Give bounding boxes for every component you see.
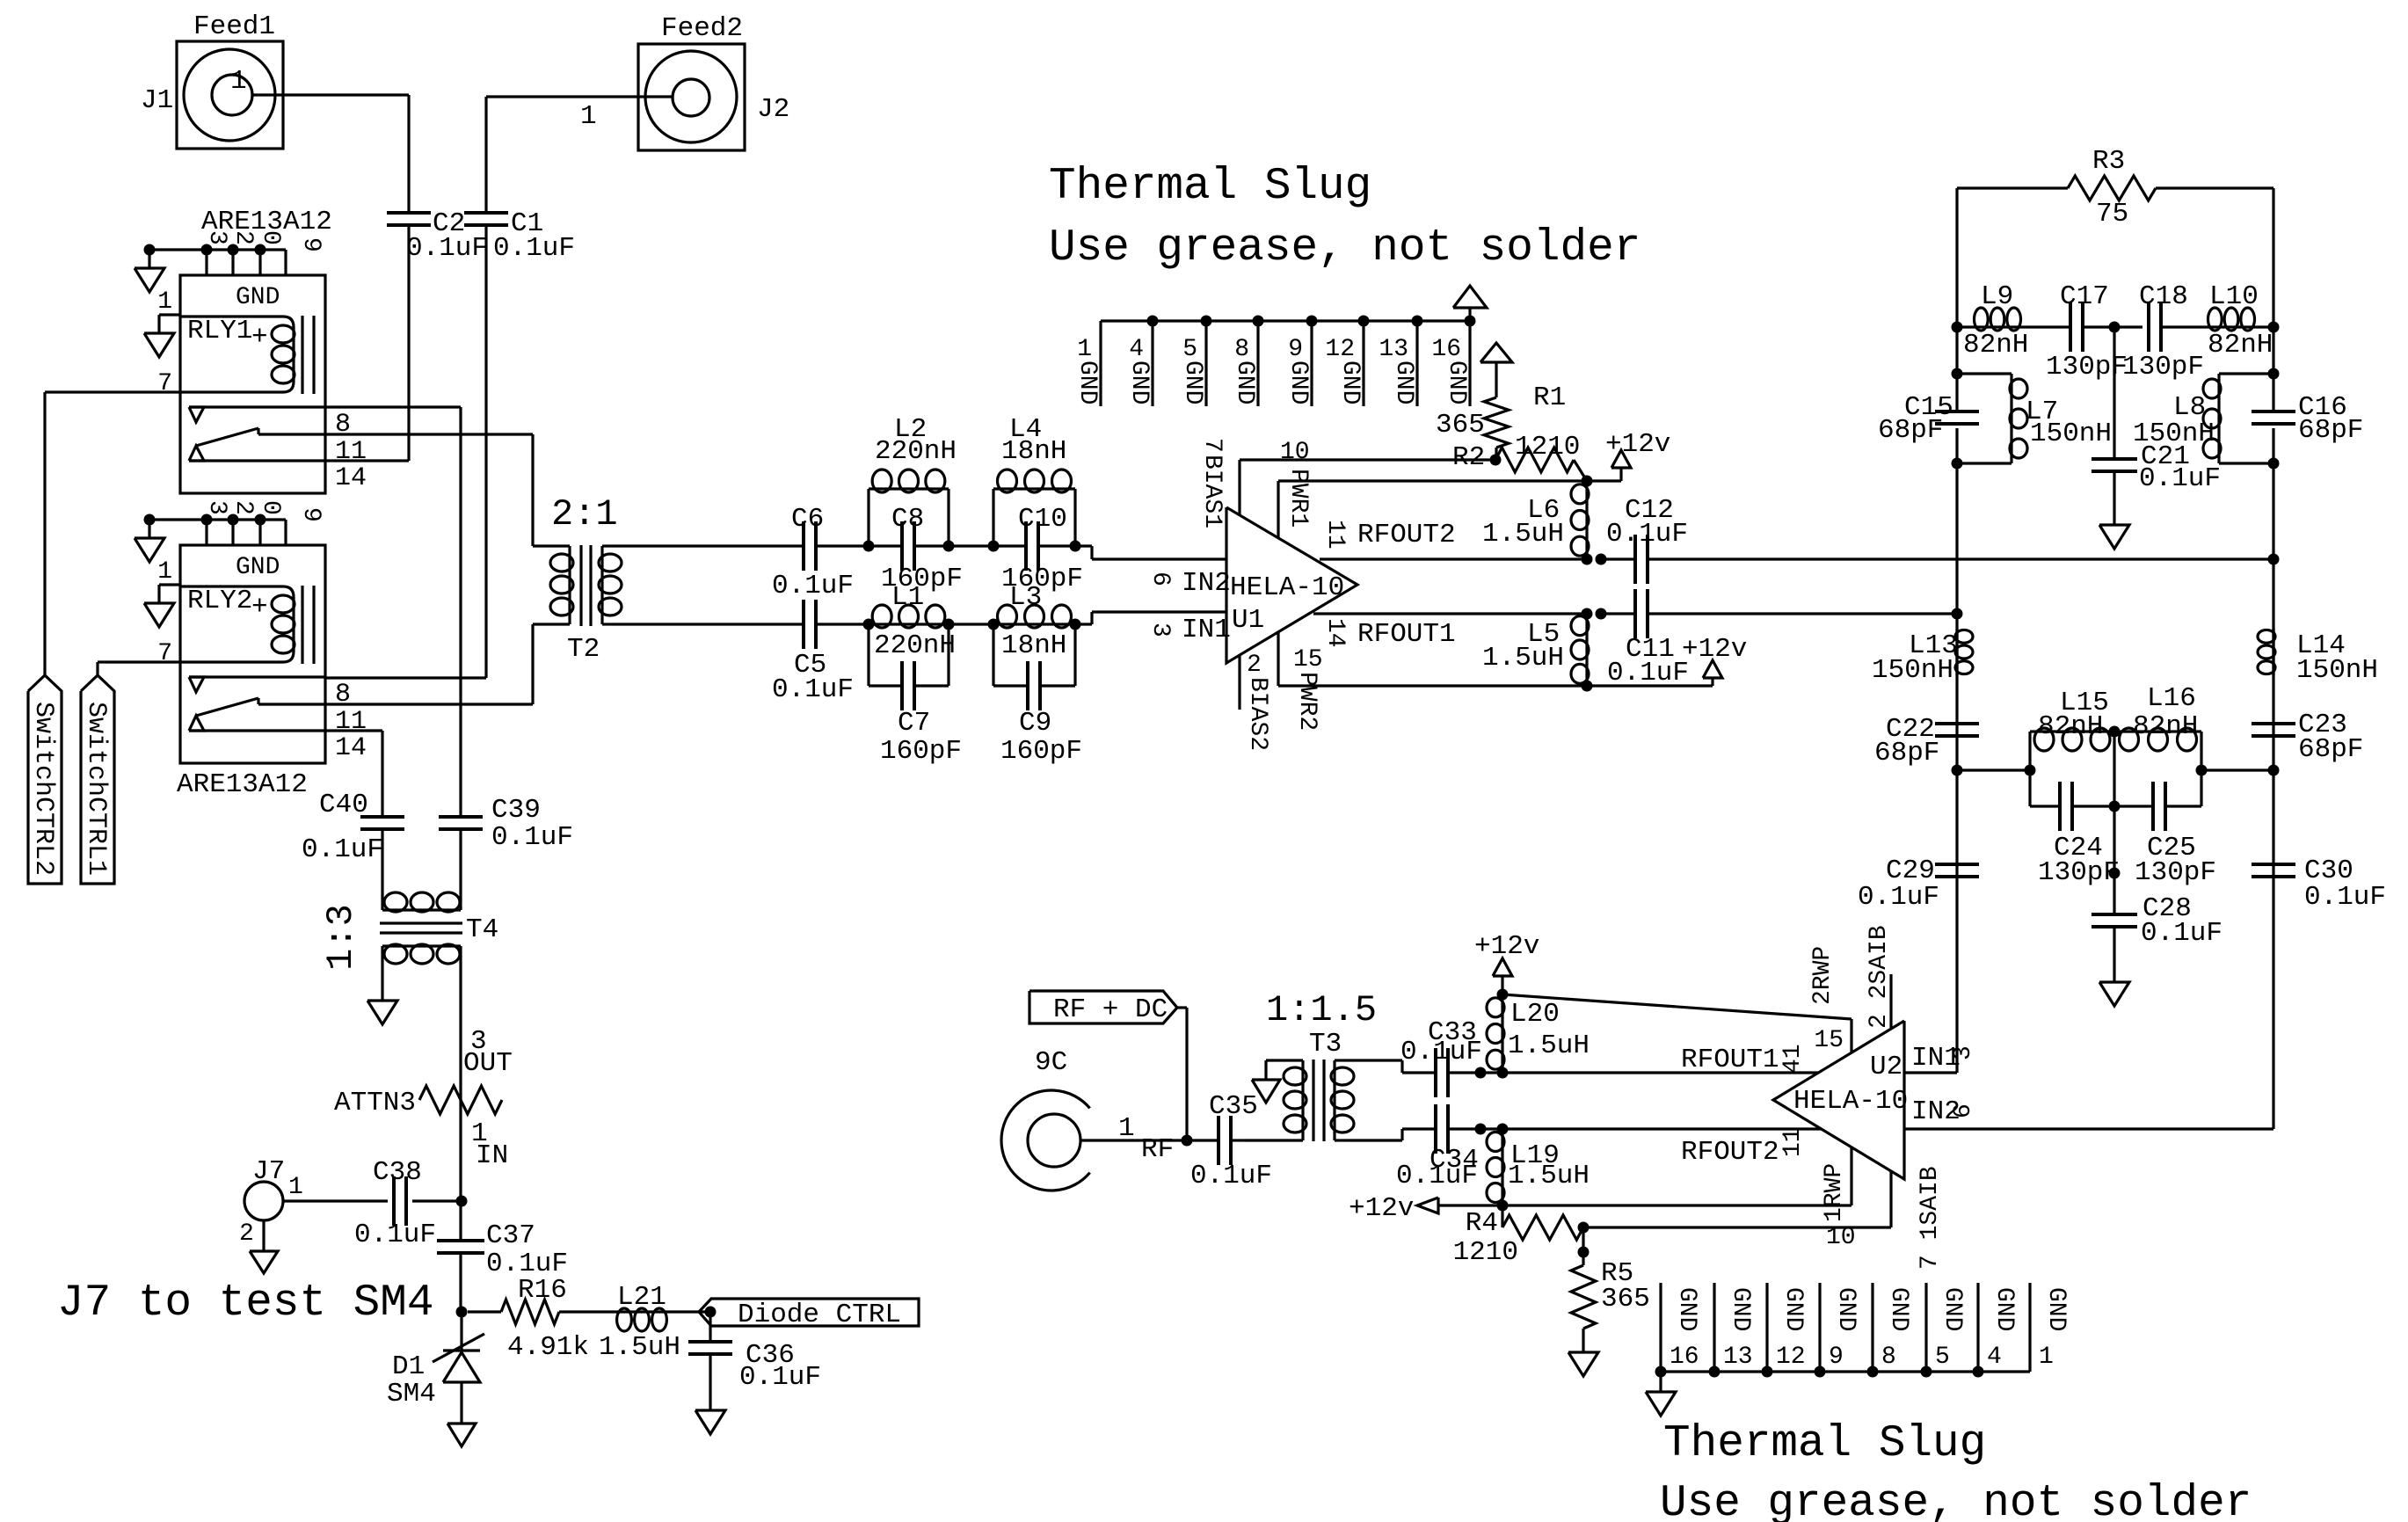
svg-text:PWR2: PWR2	[1293, 672, 1320, 731]
svg-text:150nH: 150nH	[1872, 655, 1953, 686]
svg-text:RF: RF	[1141, 1134, 1174, 1165]
svg-text:68pF: 68pF	[1874, 738, 1939, 768]
svg-text:0: 0	[257, 500, 284, 515]
svg-text:0.1uF: 0.1uF	[2139, 463, 2221, 494]
svg-text:RFOUT2: RFOUT2	[1681, 1137, 1779, 1168]
svg-text:+: +	[251, 322, 268, 353]
svg-text:J1: J1	[141, 85, 173, 116]
svg-text:9: 9	[297, 237, 324, 252]
svg-text:J7: J7	[252, 1156, 285, 1187]
svg-text:14: 14	[1321, 618, 1349, 648]
svg-text:7: 7	[1198, 438, 1226, 453]
svg-text:C8: C8	[891, 504, 924, 535]
svg-text:Diode CTRL: Diode CTRL	[738, 1300, 901, 1330]
svg-text:GND: GND	[1832, 1287, 1859, 1331]
svg-text:9: 9	[1288, 336, 1303, 363]
svg-text:0.1uF: 0.1uF	[1400, 1037, 1482, 1067]
svg-text:R16: R16	[518, 1275, 567, 1306]
svg-text:GND: GND	[1779, 1287, 1807, 1331]
svg-text:82nH: 82nH	[2133, 711, 2198, 742]
svg-text:RF + DC: RF + DC	[1053, 994, 1168, 1025]
svg-text:365: 365	[1601, 1284, 1650, 1314]
svg-text:GND: GND	[2042, 1287, 2070, 1331]
svg-text:J2: J2	[757, 94, 789, 125]
svg-text:C18: C18	[2139, 281, 2188, 312]
svg-text:3: 3	[1950, 1045, 1977, 1060]
svg-text:RFOUT1: RFOUT1	[1357, 619, 1456, 650]
svg-text:82nH: 82nH	[2208, 330, 2273, 360]
svg-text:1: 1	[580, 101, 597, 132]
svg-text:RLY1: RLY1	[187, 316, 252, 346]
svg-text:GND: GND	[1939, 1287, 1966, 1331]
svg-text:1: 1	[2039, 1344, 2054, 1371]
svg-text:GND: GND	[1443, 360, 1470, 404]
svg-text:HELA-10: HELA-10	[1230, 572, 1344, 603]
svg-text:18nH: 18nH	[1001, 436, 1066, 467]
svg-text:C10: C10	[1018, 504, 1067, 535]
svg-text:130pF: 130pF	[2122, 352, 2204, 382]
svg-text:GND: GND	[1727, 1287, 1754, 1331]
svg-text:RLY2: RLY2	[187, 586, 252, 616]
svg-text:5: 5	[1935, 1344, 1950, 1371]
svg-text:GND: GND	[1885, 1287, 1912, 1331]
svg-text:1: 1	[1118, 1113, 1135, 1144]
svg-text:150nH: 150nH	[2296, 655, 2378, 686]
svg-text:1RWP: 1RWP	[1821, 1163, 1848, 1222]
svg-text:C17: C17	[2060, 281, 2109, 312]
svg-text:ARE13A12: ARE13A12	[177, 769, 308, 800]
svg-text:U2: U2	[1870, 1052, 1902, 1082]
svg-text:L10: L10	[2209, 281, 2259, 312]
svg-text:160pF: 160pF	[880, 736, 962, 767]
svg-text:RFOUT2: RFOUT2	[1357, 520, 1456, 550]
svg-text:1: 1	[230, 66, 247, 97]
svg-text:C40: C40	[319, 790, 368, 820]
svg-text:1.5uH: 1.5uH	[1508, 1030, 1590, 1061]
svg-text:R4: R4	[1466, 1208, 1498, 1239]
svg-text:GND: GND	[236, 554, 280, 581]
svg-text:11: 11	[335, 707, 367, 737]
svg-text:C35: C35	[1209, 1091, 1258, 1122]
svg-text:1: 1	[1077, 336, 1092, 363]
svg-text:ARE13A12: ARE13A12	[201, 207, 332, 237]
svg-text:2:1: 2:1	[551, 493, 618, 535]
svg-text:0.1uF: 0.1uF	[1607, 658, 1689, 688]
svg-text:+12v: +12v	[1474, 931, 1539, 962]
svg-text:GND: GND	[1073, 360, 1101, 404]
svg-text:13: 13	[1379, 336, 1408, 363]
svg-text:0.1uF: 0.1uF	[2141, 918, 2222, 949]
svg-text:18nH: 18nH	[1001, 630, 1066, 661]
svg-text:Feed2: Feed2	[661, 13, 743, 44]
svg-text:12: 12	[1776, 1344, 1806, 1371]
svg-text:GND: GND	[1284, 360, 1312, 404]
svg-text:C6: C6	[791, 504, 824, 535]
svg-text:2: 2	[229, 500, 257, 515]
svg-text:1.5uH: 1.5uH	[1508, 1161, 1590, 1191]
svg-text:0.1uF: 0.1uF	[739, 1362, 821, 1393]
svg-text:L20: L20	[1510, 999, 1560, 1030]
svg-text:1.5uH: 1.5uH	[1482, 519, 1564, 550]
svg-text:68pF: 68pF	[1878, 415, 1943, 446]
svg-text:130pF: 130pF	[2038, 857, 2120, 888]
svg-text:D1: D1	[392, 1351, 425, 1382]
svg-text:0.1uF: 0.1uF	[1396, 1161, 1478, 1191]
svg-text:+12v: +12v	[1682, 634, 1747, 665]
svg-text:12: 12	[1325, 336, 1355, 363]
svg-text:T3: T3	[1309, 1029, 1342, 1060]
svg-text:GND: GND	[1673, 1287, 1700, 1331]
svg-text:10: 10	[1826, 1224, 1856, 1251]
svg-text:365: 365	[1436, 410, 1485, 441]
svg-text:1:1.5: 1:1.5	[1266, 989, 1377, 1031]
svg-text:Thermal Slug: Thermal Slug	[1663, 1419, 1986, 1469]
svg-text:15: 15	[1814, 1027, 1844, 1054]
svg-text:0.1uF: 0.1uF	[354, 1220, 436, 1250]
svg-text:GND: GND	[1125, 360, 1153, 404]
svg-text:C37: C37	[486, 1220, 535, 1251]
svg-text:16: 16	[1431, 336, 1461, 363]
svg-text:GND: GND	[1336, 360, 1364, 404]
svg-text:4: 4	[1129, 336, 1144, 363]
svg-text:SwitchCTRL2: SwitchCTRL2	[28, 702, 58, 876]
svg-text:1210: 1210	[1515, 432, 1580, 462]
svg-text:C38: C38	[373, 1157, 422, 1188]
svg-text:1:3: 1:3	[320, 904, 362, 971]
svg-text:0.1uF: 0.1uF	[772, 571, 854, 601]
svg-text:0.1uF: 0.1uF	[1190, 1161, 1272, 1191]
svg-text:R2: R2	[1452, 442, 1485, 473]
svg-text:6: 6	[1950, 1103, 1977, 1118]
svg-text:IN2: IN2	[1182, 568, 1231, 599]
svg-text:SM4: SM4	[387, 1379, 436, 1409]
svg-text:0.1uF: 0.1uF	[406, 233, 488, 264]
svg-text:PWR1: PWR1	[1284, 469, 1312, 528]
svg-text:160pF: 160pF	[1000, 736, 1082, 767]
svg-text:220nH: 220nH	[875, 436, 957, 467]
svg-text:1210: 1210	[1453, 1237, 1518, 1268]
svg-text:Feed1: Feed1	[193, 11, 275, 42]
svg-text:0.1uF: 0.1uF	[2304, 882, 2386, 913]
svg-text:C39: C39	[491, 795, 541, 826]
svg-text:1.5uH: 1.5uH	[599, 1332, 680, 1363]
svg-text:T2: T2	[567, 634, 600, 665]
svg-text:6: 6	[1146, 572, 1174, 586]
svg-text:+12v: +12v	[1605, 429, 1670, 460]
svg-text:41: 41	[1779, 1044, 1807, 1074]
svg-text:2 2SAIB: 2 2SAIB	[1866, 925, 1893, 1029]
svg-text:130pF: 130pF	[2135, 857, 2216, 888]
svg-text:15: 15	[1293, 646, 1323, 674]
svg-text:IN1: IN1	[1182, 615, 1231, 645]
svg-text:0.1uF: 0.1uF	[772, 674, 854, 705]
svg-text:L21: L21	[617, 1282, 666, 1313]
svg-text:L1: L1	[891, 582, 924, 613]
svg-text:R3: R3	[2092, 146, 2125, 177]
svg-text:8: 8	[1881, 1344, 1896, 1371]
svg-text:1.5uH: 1.5uH	[1482, 643, 1564, 674]
svg-text:SwitchCTRL1: SwitchCTRL1	[81, 702, 111, 876]
svg-text:2: 2	[239, 1220, 254, 1248]
svg-text:U1: U1	[1232, 605, 1264, 636]
svg-text:150nH: 150nH	[2030, 419, 2112, 449]
svg-text:10: 10	[1280, 439, 1310, 466]
svg-text:1: 1	[157, 288, 172, 316]
svg-text:4: 4	[1987, 1344, 2002, 1371]
svg-text:7: 7	[157, 640, 172, 667]
svg-text:2RWP: 2RWP	[1809, 946, 1837, 1005]
svg-text:0.1uF: 0.1uF	[1858, 882, 1939, 913]
svg-text:+: +	[251, 592, 268, 623]
svg-text:68pF: 68pF	[2298, 415, 2363, 446]
svg-text:0.1uF: 0.1uF	[1606, 519, 1688, 550]
svg-text:14: 14	[335, 463, 367, 493]
svg-text:7 1SAIB: 7 1SAIB	[1917, 1166, 1944, 1270]
svg-text:RFOUT1: RFOUT1	[1681, 1045, 1779, 1075]
svg-text:J7 to test SM4: J7 to test SM4	[57, 1278, 433, 1329]
svg-text:GND: GND	[1990, 1287, 2018, 1331]
svg-text:220nH: 220nH	[874, 630, 956, 661]
svg-text:14: 14	[335, 733, 367, 763]
svg-text:L3: L3	[1009, 582, 1042, 613]
svg-text:1: 1	[157, 558, 172, 586]
svg-text:11: 11	[1321, 520, 1349, 550]
svg-text:9: 9	[297, 507, 324, 522]
svg-text:11: 11	[1779, 1127, 1807, 1157]
svg-text:68pF: 68pF	[2298, 734, 2363, 765]
svg-text:Thermal Slug: Thermal Slug	[1049, 162, 1371, 212]
svg-text:BIAS1: BIAS1	[1198, 455, 1226, 528]
svg-text:HELA-10: HELA-10	[1793, 1086, 1908, 1117]
svg-text:16: 16	[1670, 1344, 1699, 1371]
svg-text:IN: IN	[476, 1140, 508, 1171]
svg-text:75: 75	[2096, 199, 2128, 229]
svg-text:0.1uF: 0.1uF	[302, 834, 383, 865]
svg-text:82nH: 82nH	[1963, 330, 2028, 360]
svg-text:2: 2	[1247, 652, 1262, 679]
svg-text:C9: C9	[1019, 708, 1051, 739]
svg-text:GND: GND	[236, 284, 280, 311]
svg-text:OUT: OUT	[463, 1048, 513, 1079]
svg-text:9C: 9C	[1035, 1047, 1067, 1078]
svg-text:GND: GND	[1179, 360, 1206, 404]
svg-text:13: 13	[1723, 1344, 1753, 1371]
svg-text:L16: L16	[2147, 683, 2196, 714]
svg-text:3: 3	[1146, 623, 1174, 637]
svg-text:GND: GND	[1390, 360, 1417, 404]
svg-text:150nH: 150nH	[2133, 419, 2215, 449]
svg-text:4.91k: 4.91k	[507, 1332, 589, 1363]
svg-text:R1: R1	[1533, 382, 1566, 413]
svg-text:ATTN3: ATTN3	[334, 1088, 416, 1118]
svg-text:1: 1	[288, 1174, 303, 1201]
svg-text:GND: GND	[1231, 360, 1258, 404]
svg-text:5: 5	[1182, 336, 1197, 363]
svg-text:7: 7	[157, 370, 172, 397]
svg-text:82nH: 82nH	[2038, 711, 2103, 742]
svg-text:BIAS2: BIAS2	[1244, 677, 1271, 751]
svg-text:9: 9	[1829, 1344, 1844, 1371]
svg-text:+12v: +12v	[1349, 1193, 1414, 1224]
svg-text:0.1uF: 0.1uF	[491, 822, 573, 853]
svg-text:3: 3	[203, 500, 230, 515]
svg-text:C7: C7	[898, 708, 930, 739]
svg-text:8: 8	[1234, 336, 1249, 363]
svg-text:T4: T4	[466, 914, 498, 945]
svg-text:L9: L9	[1981, 281, 2013, 312]
svg-text:Use grease, not solder: Use grease, not solder	[1660, 1479, 2252, 1522]
svg-text:Use grease, not solder: Use grease, not solder	[1049, 223, 1640, 273]
svg-text:0.1uF: 0.1uF	[493, 233, 575, 264]
svg-text:11: 11	[335, 437, 367, 467]
